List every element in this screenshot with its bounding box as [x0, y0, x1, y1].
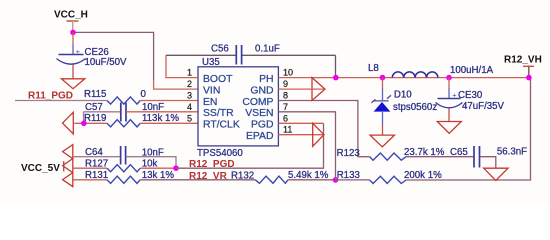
capacitor C56	[236, 45, 241, 65]
node R12_PGD junction	[173, 165, 179, 171]
capacitor C57	[121, 103, 126, 122]
svg-text:C57: C57	[85, 102, 103, 113]
svg-text:7: 7	[283, 102, 288, 112]
svg-text:C64: C64	[85, 147, 103, 158]
svg-text:BOOT: BOOT	[203, 74, 233, 85]
resistor R127	[107, 165, 140, 172]
ground below CE26	[61, 79, 84, 89]
svg-text:TPS54060: TPS54060	[197, 148, 243, 159]
node CE30 junction	[446, 75, 452, 81]
svg-text:VCC_H: VCC_H	[54, 10, 88, 21]
wire C65 to ground	[480, 157, 496, 169]
svg-text:200k 1%: 200k 1%	[404, 170, 442, 181]
svg-text:+: +	[76, 47, 81, 56]
svg-text:2: 2	[187, 79, 192, 89]
offpage arrow VCC_5V row1	[63, 145, 73, 159]
wire VSEN net	[278, 112, 335, 180]
wire CE26 bottom lead	[72, 65, 74, 79]
offpage arrow EPAD	[313, 123, 324, 146]
power bar R12_VH	[523, 65, 534, 67]
wire C64 row	[73, 156, 120, 158]
wire R127 to junction	[140, 167, 176, 169]
svg-text:VIN: VIN	[203, 86, 220, 97]
ground below CE30	[437, 122, 461, 134]
svg-text:CE30: CE30	[458, 90, 483, 101]
svg-text:R119: R119	[84, 113, 106, 124]
wire COMP net	[278, 101, 369, 157]
capacitor CE26	[59, 54, 84, 56]
svg-text:EN: EN	[203, 97, 217, 108]
svg-text:R127: R127	[85, 158, 108, 169]
svg-text:3: 3	[187, 91, 192, 101]
node R12_VH junction	[526, 75, 532, 81]
wire R127 row	[73, 167, 107, 169]
resistor R133	[370, 176, 406, 183]
svg-text:VCC_5V: VCC_5V	[21, 163, 60, 174]
svg-text:+: +	[452, 91, 457, 100]
svg-text:C56: C56	[211, 44, 229, 55]
resistor R131	[107, 176, 140, 183]
wire R11_PGD to R115	[15, 100, 107, 102]
offpage arrow VCC_5V row3	[63, 173, 73, 187]
svg-text:R12_VH: R12_VH	[504, 55, 542, 66]
wire R131 to R132	[140, 179, 255, 181]
node C57/R119 junction	[81, 121, 87, 127]
svg-text:100uH/1A: 100uH/1A	[450, 65, 494, 76]
offpage arrow R119 row	[63, 112, 74, 134]
wire arrow to R119	[74, 122, 107, 124]
svg-text:10: 10	[283, 68, 293, 78]
svg-text:10uF/50V: 10uF/50V	[85, 57, 128, 68]
svg-text:stps0560z: stps0560z	[393, 102, 437, 113]
svg-text:RT/CLK: RT/CLK	[203, 120, 240, 131]
wire PH rail	[278, 77, 530, 79]
wire R12_PGD row	[176, 123, 324, 168]
wire CE26 top lead	[72, 32, 74, 44]
op-amp U35 TPS54060 body	[198, 67, 278, 146]
svg-text:EPAD: EPAD	[246, 131, 274, 142]
svg-text:6: 6	[283, 113, 288, 123]
wire VCC_H rail	[73, 32, 154, 80]
wire R132 to VSEN node	[288, 179, 336, 181]
wire BOOT pin1	[166, 55, 198, 77]
node L8 junction	[380, 75, 386, 81]
svg-text:5: 5	[187, 113, 192, 123]
wire C57 to pin4	[126, 111, 198, 113]
wire VSEN node to R133	[336, 179, 370, 181]
svg-text:0.1uF: 0.1uF	[255, 44, 280, 55]
resistor R119	[107, 120, 140, 127]
wire C56 rail	[166, 55, 336, 77]
wire CE30 bottom lead	[448, 109, 450, 122]
svg-text:R131: R131	[85, 170, 108, 181]
wire CE30 top lead	[448, 78, 450, 88]
wire D10 bottom lead	[382, 111, 384, 125]
svg-text:PH: PH	[259, 74, 273, 85]
offpage arrow GND/PH	[312, 78, 325, 101]
svg-text:R11_PGD: R11_PGD	[28, 90, 73, 101]
svg-text:C65: C65	[450, 147, 468, 158]
wire R131 row	[73, 179, 107, 181]
offpage arrow VCC_5V row2	[63, 159, 73, 173]
wire GND stub	[278, 88, 324, 90]
svg-text:8: 8	[283, 91, 288, 101]
ground below C65	[484, 168, 508, 180]
resistor R123	[370, 153, 406, 160]
wire PGD stub	[278, 122, 323, 124]
svg-text:R133: R133	[337, 170, 360, 181]
diode D10 stps0560z	[371, 95, 391, 103]
svg-text:R115: R115	[84, 89, 106, 100]
wire R115 to pin3	[140, 100, 198, 102]
wire EPAD stub	[278, 134, 324, 136]
wire D10 top lead	[382, 78, 384, 88]
node VSEN junction	[333, 177, 339, 183]
node PH/C56 junction	[333, 75, 339, 81]
wire C57 left bend	[84, 112, 121, 124]
svg-text:R123: R123	[337, 148, 360, 159]
wire R133 to right border	[406, 78, 531, 180]
svg-text:0: 0	[141, 89, 147, 100]
svg-text:D10: D10	[394, 89, 412, 100]
svg-text:COMP: COMP	[242, 97, 273, 108]
capacitor CE30	[438, 98, 461, 100]
resistor R132	[255, 176, 288, 183]
svg-text:R132: R132	[231, 171, 254, 182]
svg-text:L8: L8	[368, 63, 379, 74]
power bar VCC_H	[67, 20, 79, 22]
svg-text:1: 1	[187, 68, 192, 78]
svg-text:11: 11	[283, 125, 292, 135]
svg-text:9: 9	[283, 79, 288, 89]
svg-text:47uF/35V: 47uF/35V	[462, 101, 505, 112]
ground below D10	[370, 135, 395, 147]
capacitor C64	[121, 146, 126, 165]
power tick VCC_5V	[63, 161, 65, 171]
svg-text:U35: U35	[202, 57, 220, 68]
svg-text:SS/TR: SS/TR	[203, 108, 234, 119]
capacitor C65	[474, 146, 480, 168]
svg-text:VSEN: VSEN	[245, 108, 273, 119]
svg-text:PGD: PGD	[251, 120, 274, 131]
resistor R115	[107, 97, 140, 104]
node VCC_H junction	[70, 30, 76, 36]
svg-text:113k 1%: 113k 1%	[142, 113, 179, 124]
wire R123 to C65	[406, 156, 474, 158]
wire C64 to junction	[126, 157, 176, 169]
svg-text:56.3nF: 56.3nF	[497, 146, 527, 157]
wire R119 to pin5	[140, 122, 198, 124]
svg-text:4: 4	[187, 102, 192, 112]
svg-text:GND: GND	[250, 86, 273, 97]
